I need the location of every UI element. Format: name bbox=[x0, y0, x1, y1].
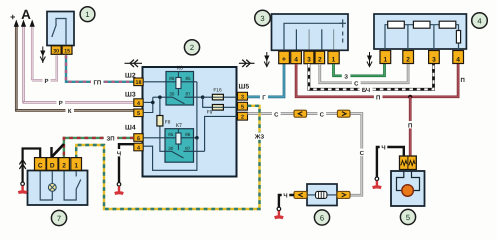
lever switch pin 2 bbox=[59, 158, 70, 171]
auxiliary resistor U4 body bbox=[374, 14, 466, 49]
fan switch pin plus bbox=[279, 51, 290, 64]
svg-text:7: 7 bbox=[57, 214, 61, 223]
svg-text:БЧ: БЧ bbox=[362, 87, 370, 94]
wire K bus1 to Sh3-5 bbox=[15, 107, 134, 115]
svg-text:86: 86 bbox=[185, 132, 191, 137]
wire Ch black Sh4-4 to ground bbox=[115, 144, 134, 182]
lever switch pin D bbox=[47, 158, 58, 171]
svg-text:3: 3 bbox=[241, 95, 244, 101]
svg-text:30: 30 bbox=[53, 49, 59, 55]
connector Sh5 pin 3 bbox=[238, 92, 248, 100]
svg-text:1: 1 bbox=[85, 10, 89, 19]
connector Sh4 pin 4 bbox=[134, 143, 143, 151]
wire junction down to F9 to Sh5-5 bbox=[203, 97, 238, 107]
fuse holder internal wire bbox=[307, 194, 337, 196]
wire black pin D jog symbol bbox=[52, 144, 64, 158]
fan switch pin 4 bbox=[291, 51, 302, 64]
wire P from bus3 to ignition switch terminal 30 bbox=[32, 55, 57, 85]
callout 7 bbox=[51, 210, 66, 225]
wire S gray Sh5-2 to connector pair to fuse box 6 bbox=[248, 110, 367, 195]
fan switch pin 3 bbox=[304, 51, 314, 64]
svg-text:D: D bbox=[50, 163, 55, 170]
branch arrow to other consumers (near fan switch) bbox=[264, 52, 269, 67]
wire junction to fuse F8 and K7 pin 30 bbox=[160, 97, 165, 151]
junction fuse F8 tap bbox=[158, 95, 162, 99]
svg-text:5: 5 bbox=[241, 105, 244, 111]
fuse element inside holder bbox=[316, 191, 327, 198]
fuse holder right terminal bbox=[337, 191, 350, 198]
svg-text:2: 2 bbox=[241, 115, 244, 121]
connector plug pair X1 bbox=[294, 110, 307, 117]
heater lever switch U7 body bbox=[28, 171, 88, 206]
fuse F9 bbox=[212, 105, 223, 111]
fan switch contact ticks bbox=[296, 29, 333, 49]
mounting block U2 body bbox=[143, 67, 237, 177]
resistor pin 3 bbox=[429, 51, 440, 64]
fan switch pin 1 bbox=[328, 51, 339, 64]
wire Sh3-5 into block bbox=[143, 97, 153, 112]
resistor pin 2 bbox=[403, 51, 414, 64]
relay K7 contact 30-87 bbox=[165, 151, 205, 158]
relay K7 body bbox=[165, 129, 194, 163]
junction P wire to motor feed bbox=[408, 95, 412, 99]
motor brush leads bbox=[397, 171, 420, 191]
arrow symbol right of block bbox=[239, 60, 255, 67]
wire K7-86 to junction bbox=[181, 137, 197, 139]
relay K7 coil bbox=[176, 129, 181, 150]
relay K6 pin labels bbox=[169, 76, 191, 97]
callout 3 bbox=[255, 10, 271, 26]
svg-text:4: 4 bbox=[294, 56, 298, 63]
svg-text:Ш4: Ш4 bbox=[125, 125, 136, 132]
svg-text:ЗП: ЗП bbox=[106, 136, 114, 143]
svg-text:П: П bbox=[376, 94, 380, 101]
ground symbol lever switch bbox=[18, 186, 28, 194]
connector plug pair X2 bbox=[337, 110, 350, 117]
svg-text:F16: F16 bbox=[213, 88, 222, 94]
ground contact motor bbox=[375, 177, 379, 181]
lamp circuit loop bbox=[40, 171, 52, 201]
svg-text:ГП: ГП bbox=[93, 79, 101, 86]
wire ZhZ striped Sh5-5 to heater lever switch pin 1 bbox=[76, 106, 266, 209]
wire Sh2-18 to relay K6 pin 86 bbox=[143, 81, 166, 83]
fan switch slider mark bbox=[340, 19, 347, 42]
illumination lamp bbox=[48, 184, 56, 192]
callout 1 bbox=[80, 7, 95, 22]
heater fan switch U3 body bbox=[272, 14, 349, 50]
svg-text:5: 5 bbox=[137, 111, 140, 117]
heater motor U5 body bbox=[391, 171, 425, 206]
svg-text:ЖЗ: ЖЗ bbox=[254, 134, 264, 141]
relay K6 coil wire bbox=[166, 81, 197, 83]
svg-text:Р: Р bbox=[59, 100, 63, 107]
resistor rail and taps bbox=[385, 25, 459, 50]
wire G blue Sh5-3 to fan switch plus bbox=[248, 64, 285, 102]
ignition switch contact symbol bbox=[52, 19, 66, 45]
branch chevrons on ground wire bbox=[19, 160, 25, 170]
wire Ch black fuse holder to ground bbox=[279, 191, 294, 207]
svg-text:1: 1 bbox=[74, 163, 78, 170]
svg-text:6: 6 bbox=[137, 136, 140, 142]
fuse F16 bbox=[212, 94, 223, 100]
ground contact Sh4-4 bbox=[117, 183, 121, 187]
wire Ch black pin C to ground bbox=[23, 149, 41, 183]
svg-text:К6: К6 bbox=[177, 66, 183, 72]
svg-text:3: 3 bbox=[260, 14, 264, 23]
fuse holder U6 body bbox=[307, 184, 337, 206]
svg-text:+: + bbox=[10, 12, 15, 22]
callout 2 bbox=[184, 40, 199, 55]
svg-text:2: 2 bbox=[406, 57, 410, 64]
ground contact lever switch bbox=[21, 182, 25, 186]
connector Sh3 pin 4 bbox=[134, 99, 143, 107]
ignition switch pin 30 bbox=[51, 46, 61, 55]
svg-text:30: 30 bbox=[168, 146, 174, 151]
resistor pin 4 bbox=[453, 51, 464, 64]
svg-text:Ш5: Ш5 bbox=[239, 84, 250, 91]
relay K6 body bbox=[166, 72, 194, 106]
svg-text:С: С bbox=[320, 111, 325, 118]
wire BCh striped fan switch 3 to resistor pin 3 bbox=[309, 64, 434, 94]
svg-text:П: П bbox=[461, 77, 465, 84]
resistor element R1 bbox=[388, 21, 405, 28]
svg-text:3: 3 bbox=[307, 56, 311, 63]
wire Ch black heater motor to ground bbox=[377, 143, 404, 177]
connector Sh3 pin 5 bbox=[134, 109, 143, 117]
svg-text:Ч: Ч bbox=[117, 150, 121, 157]
svg-text:85: 85 bbox=[185, 76, 191, 81]
ground symbol Sh4-4 bbox=[114, 186, 124, 195]
branch arrow to other consumers (near ignition switch) bbox=[40, 47, 45, 64]
wire Sh3-4 into block bbox=[143, 101, 153, 103]
callout 6 bbox=[314, 210, 329, 225]
wire to K6 pin 30 bbox=[153, 96, 166, 98]
relay K6 coil bbox=[176, 72, 181, 96]
junction Sh3-4/5 bbox=[151, 101, 155, 105]
svg-text:4: 4 bbox=[137, 101, 140, 107]
wire P red fan switch 4 to resistor pin 4 bbox=[296, 64, 465, 101]
svg-text:15: 15 bbox=[64, 49, 70, 55]
wire P red down to heater motor bbox=[406, 97, 414, 157]
connector Sh5 pin 2 bbox=[238, 112, 248, 120]
connector Sh2 pin 18 bbox=[134, 78, 143, 86]
ground symbol fuse holder bbox=[274, 211, 284, 219]
fuse F8 bbox=[157, 116, 163, 127]
svg-text:Г: Г bbox=[262, 95, 266, 102]
connector Sh4 pin 6 bbox=[134, 134, 143, 142]
svg-text:2: 2 bbox=[62, 163, 66, 170]
svg-text:К: К bbox=[68, 108, 72, 115]
junction K7-86 bbox=[195, 136, 199, 140]
svg-text:85: 85 bbox=[168, 132, 174, 137]
wire Sh4-6 to relay K7 pin 85 bbox=[143, 137, 176, 139]
resistor element R2 bbox=[413, 21, 430, 28]
arrow symbol left of block bbox=[125, 60, 143, 67]
callout 4 bbox=[472, 13, 488, 29]
relay K6 contact 30-87 bbox=[166, 97, 203, 104]
svg-text:1: 1 bbox=[332, 56, 336, 63]
svg-text:С: С bbox=[360, 150, 365, 157]
wire ZP striped Sh4-6 to heater lever switch pin 2 bbox=[64, 134, 134, 157]
svg-text:F8: F8 bbox=[165, 120, 171, 126]
svg-text:C: C bbox=[38, 163, 43, 170]
ignition switch U1 body bbox=[47, 12, 74, 46]
wire junction down and around to Sh4-4 bbox=[143, 138, 197, 171]
svg-text:3: 3 bbox=[432, 57, 436, 64]
svg-text:2: 2 bbox=[190, 43, 194, 52]
connector Sh5 pin 5 bbox=[238, 102, 248, 110]
svg-text:A: A bbox=[21, 7, 31, 22]
wire K bus arrow up bbox=[14, 20, 19, 111]
relay K7 pin labels bbox=[168, 132, 191, 151]
motor armature M bbox=[402, 185, 414, 197]
svg-text:З: З bbox=[344, 73, 348, 80]
svg-text:30: 30 bbox=[169, 92, 175, 97]
svg-text:86: 86 bbox=[169, 76, 175, 81]
lever switch pin C bbox=[35, 158, 47, 171]
wire P bus3 arrow up bbox=[30, 20, 35, 81]
svg-text:Ч: Ч bbox=[283, 193, 287, 200]
svg-text:4: 4 bbox=[456, 57, 460, 64]
wire P bus2 arrow up bbox=[21, 20, 26, 103]
branch arrow to other consumers (near resistor) bbox=[367, 52, 372, 67]
resistor element R3 bbox=[439, 21, 456, 28]
svg-text:1: 1 bbox=[383, 57, 387, 64]
junction K6-87 / fuses bbox=[201, 95, 205, 99]
svg-text:18: 18 bbox=[136, 80, 142, 86]
heater motor connector with thermal links bbox=[400, 156, 417, 170]
svg-text:87: 87 bbox=[185, 92, 191, 97]
svg-text:4: 4 bbox=[477, 16, 481, 25]
fan switch pin 2 bbox=[315, 51, 325, 64]
svg-text:Ч: Ч bbox=[381, 145, 385, 152]
svg-text:П: П bbox=[408, 122, 412, 129]
wire Z green fan switch 1 to resistor pin 1 bbox=[334, 64, 385, 80]
svg-text:+: + bbox=[282, 55, 287, 64]
svg-text:6: 6 bbox=[320, 213, 324, 222]
wire P bus2 to Sh3-4 bbox=[23, 99, 134, 107]
ignition switch pin 15 bbox=[62, 46, 72, 55]
svg-text:F9: F9 bbox=[207, 110, 213, 116]
wire K6-85 down to K7-86 junction bbox=[196, 82, 198, 138]
svg-text:Р: Р bbox=[44, 78, 48, 85]
fan switch common rail bbox=[284, 23, 343, 50]
ground contact fuse holder bbox=[277, 207, 281, 211]
callout 5 bbox=[400, 209, 415, 224]
fuse holder left terminal bbox=[294, 191, 307, 198]
lever switch pin 1 bbox=[71, 158, 82, 171]
svg-text:4: 4 bbox=[137, 145, 140, 151]
wire junction to F16 to Sh5-3 bbox=[203, 96, 238, 98]
ground symbol motor bbox=[372, 181, 382, 189]
wire GP striped from terminal 15 to Sh2-18 bbox=[66, 55, 134, 86]
wire K7-87 up to Sh5-2 bbox=[205, 116, 238, 151]
svg-text:87: 87 bbox=[185, 146, 191, 151]
resistor vertical element bbox=[456, 31, 460, 44]
svg-text:Ш3: Ш3 bbox=[125, 92, 136, 99]
svg-text:2: 2 bbox=[318, 56, 322, 63]
switch circuit loop bbox=[64, 171, 81, 201]
svg-text:С: С bbox=[354, 80, 359, 87]
svg-text:5: 5 bbox=[406, 213, 410, 222]
svg-text:С: С bbox=[274, 111, 279, 118]
resistor pin 1 bbox=[380, 51, 391, 64]
wire S gray fan switch 2 to resistor pin 2 bbox=[320, 64, 408, 87]
